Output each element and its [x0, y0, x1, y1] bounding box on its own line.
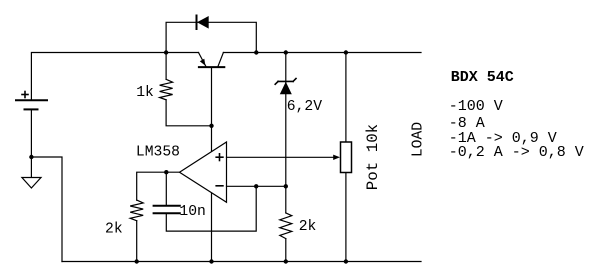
svg-text:LM358: LM358: [136, 145, 180, 161]
svg-text:1k: 1k: [136, 85, 154, 101]
svg-text:LOAD: LOAD: [411, 122, 427, 157]
svg-text:BDX 54C: BDX 54C: [451, 69, 514, 86]
svg-text:-0,2 A -> 0,8 V: -0,2 A -> 0,8 V: [449, 144, 584, 161]
svg-text:6,2V: 6,2V: [287, 99, 322, 115]
svg-text:-100 V: -100 V: [449, 98, 503, 115]
svg-text:Pot 10k: Pot 10k: [364, 124, 382, 190]
svg-text:10n: 10n: [179, 204, 205, 220]
svg-text:2k: 2k: [105, 222, 123, 238]
svg-text:2k: 2k: [299, 219, 317, 235]
